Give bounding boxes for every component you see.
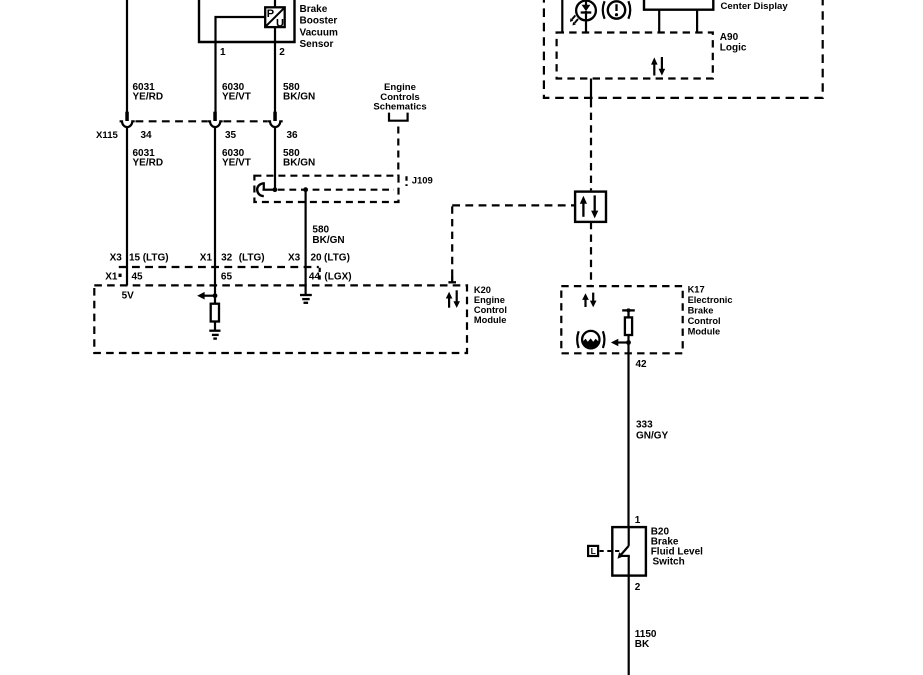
wire display box right — [696, 10, 698, 34]
J109 splice hook terminal — [257, 183, 265, 196]
svg-text:K17: K17 — [688, 284, 705, 294]
wire 6030 YE/VT to K20 — [214, 128, 216, 304]
svg-text:580: 580 — [312, 225, 329, 236]
svg-text:Logic: Logic — [720, 43, 747, 54]
svg-text:65: 65 — [221, 271, 233, 282]
svg-text:Booster: Booster — [300, 16, 338, 27]
T-bar terminal above K20 — [448, 277, 456, 283]
wire label 580 BK/GN upper — [283, 82, 315, 103]
serial data arrows in K17 — [582, 293, 596, 308]
connector X115 terminal pin 36 — [268, 112, 283, 127]
svg-text:BK: BK — [635, 639, 650, 650]
svg-text:GN/GY: GN/GY — [636, 431, 669, 442]
svg-text:YE/RD: YE/RD — [133, 92, 164, 103]
svg-text:Schematics: Schematics — [373, 102, 426, 113]
svg-text:X1: X1 — [200, 253, 213, 264]
svg-text:Vacuum: Vacuum — [300, 27, 338, 38]
arrow to brake fluid symbol — [611, 339, 629, 347]
wire resistor down — [627, 335, 629, 343]
dashed serial wire to data box — [452, 204, 575, 206]
label K20 Engine Control Module — [474, 285, 507, 325]
wire sensor pin 1 — [216, 17, 266, 112]
sensor box Brake Booster Vacuum Sensor — [199, 0, 295, 42]
wire from A90 solid — [590, 79, 592, 101]
dashed serial wire from K20 up — [451, 205, 453, 276]
svg-text:Control: Control — [474, 305, 507, 315]
resistor in K17 — [625, 317, 632, 335]
dashed serial wire gateway to K17 — [590, 222, 592, 286]
brake warning indicator symbol — [603, 1, 631, 19]
dashed serial wire A90 down — [590, 100, 592, 190]
J109 internal dashed bus — [263, 189, 276, 191]
serial data arrows in gateway box — [580, 195, 599, 218]
label Brake Booster Vacuum Sensor — [300, 4, 338, 50]
svg-text:BK/GN: BK/GN — [283, 92, 315, 103]
svg-text:X115: X115 — [96, 130, 119, 141]
label A90 Logic — [720, 32, 747, 54]
svg-text:Brake: Brake — [300, 4, 328, 15]
K20 connector left tick — [119, 274, 122, 277]
svg-text:BK/GN: BK/GN — [283, 157, 315, 168]
wire label 6030 YE/VT lower — [222, 148, 251, 169]
switch blade arrowhead — [618, 552, 624, 559]
wire 580 BK/GN from J109 to ground — [305, 190, 307, 295]
LED emission arrows — [570, 15, 578, 25]
junction dot pin36 wire — [273, 187, 278, 192]
svg-text:44: 44 — [309, 271, 321, 282]
svg-text:15: 15 — [129, 253, 141, 264]
switch B20 box — [612, 527, 646, 576]
label K17 Electronic Brake Control Module — [688, 284, 733, 336]
svg-text:5V: 5V — [122, 291, 135, 302]
wire display box left — [658, 10, 660, 34]
svg-text:34: 34 — [141, 130, 153, 141]
svg-text:2: 2 — [279, 47, 285, 58]
ground symbol in K20 — [209, 331, 220, 339]
svg-text:J109: J109 — [412, 176, 433, 187]
svg-text:Center Display: Center Display — [721, 1, 789, 12]
svg-text:X3: X3 — [110, 253, 123, 264]
wire inside display left — [561, 0, 563, 33]
svg-text:(LTG): (LTG) — [143, 253, 169, 264]
junction dot wire 6030 — [213, 293, 218, 298]
connector labels row X3/X1/X3 — [110, 253, 350, 264]
svg-text:35: 35 — [225, 130, 237, 141]
junction dot K17 — [626, 340, 631, 345]
connector labels row X1 45/65/44 — [105, 271, 351, 282]
dot on T-bar — [627, 308, 631, 312]
svg-text:YE/VT: YE/VT — [222, 92, 251, 103]
svg-text:Engine: Engine — [474, 295, 505, 305]
wire label 6031 YE/RD upper — [133, 82, 164, 103]
splice pack J109 dashed box — [254, 176, 398, 202]
arrow into K20 logic — [197, 292, 215, 300]
connector X115 terminal pin 34 — [120, 112, 135, 127]
K20 connector right tick — [319, 268, 321, 281]
svg-text:BK/GN: BK/GN — [312, 235, 344, 246]
label Engine Controls Schematics — [373, 82, 426, 112]
wire out of switch — [628, 556, 630, 576]
module K17 dashed box — [561, 286, 682, 353]
ground symbol 580 in K20 — [300, 295, 312, 303]
svg-text:2: 2 — [635, 582, 641, 593]
wire 6031 YE/RD from top — [126, 0, 128, 112]
svg-text:L: L — [591, 546, 596, 556]
module K20 dashed box — [94, 285, 467, 353]
svg-text:Module: Module — [688, 326, 721, 336]
wire label 1150 BK — [635, 629, 657, 650]
svg-text:1: 1 — [220, 47, 226, 58]
svg-text:A90: A90 — [720, 32, 739, 43]
svg-text:36: 36 — [287, 130, 299, 141]
serial data arrows in K20 — [446, 290, 460, 308]
wire 580 BK/GN to J109 — [274, 128, 276, 191]
K20 connector dashed line — [119, 266, 319, 268]
component P? Center Display outer dashed box — [544, 0, 823, 98]
svg-text:1: 1 — [635, 515, 641, 526]
dashed mechanical linkage — [600, 550, 624, 552]
connector X115 dashed harness line — [136, 120, 268, 122]
brake fluid warning symbol — [577, 331, 604, 350]
wire label 580 BK/GN middle — [312, 225, 344, 246]
svg-text:X3: X3 — [288, 253, 301, 264]
resistor in K20 — [211, 304, 219, 322]
svg-text:Control: Control — [688, 316, 721, 326]
svg-text:K20: K20 — [474, 285, 491, 295]
J109 label tick — [405, 176, 407, 186]
serial data gateway box — [575, 192, 606, 222]
svg-text:42: 42 — [636, 359, 648, 370]
label B20 Brake Fluid Level Switch — [651, 526, 703, 567]
display logic solid box — [644, 0, 713, 10]
wire sensor pin 2 upper — [274, 0, 276, 7]
svg-text:45: 45 — [132, 271, 144, 282]
svg-text:Electronic: Electronic — [688, 295, 733, 305]
svg-text:20: 20 — [311, 253, 323, 264]
wire into switch — [628, 527, 630, 546]
svg-text:X1: X1 — [105, 271, 118, 282]
switch contact bar — [619, 555, 630, 557]
pressure sensor symbol P/U box — [265, 7, 285, 29]
wire 333 GN/GY K17 to B20 — [627, 343, 629, 528]
fluid level sensor L box — [588, 546, 598, 556]
connector X115 terminal pin 35 — [208, 112, 223, 127]
svg-text:333: 333 — [636, 420, 653, 431]
module A90 Logic dashed box — [557, 33, 713, 79]
wire sensor pin 2 lower — [274, 27, 276, 112]
svg-text:Brake: Brake — [688, 305, 714, 315]
svg-text:P: P — [267, 8, 274, 20]
svg-text:(LTG): (LTG) — [239, 253, 265, 264]
svg-text:(LTG): (LTG) — [324, 253, 350, 264]
wire label 6031 YE/RD lower — [133, 148, 164, 169]
dashed lead to J109 — [397, 127, 399, 177]
wire 1150 BK — [628, 576, 630, 675]
wire label 580 BK/GN lower — [283, 148, 315, 169]
switch blade — [620, 546, 629, 556]
junction dot 580 out — [303, 187, 308, 192]
svg-text:U: U — [276, 18, 284, 30]
svg-text:32: 32 — [221, 253, 233, 264]
bracket under Engine Controls Schematics — [389, 113, 408, 121]
svg-text:Module: Module — [474, 315, 507, 325]
wire label 6030 YE/VT upper — [222, 82, 251, 103]
wire label 333 GN/GY — [636, 420, 669, 442]
wire resistor to ground — [214, 322, 216, 331]
svg-text:Sensor: Sensor — [300, 39, 334, 50]
svg-text:YE/RD: YE/RD — [133, 157, 164, 168]
T-bar terminal above K17 resistor — [622, 310, 635, 317]
svg-text:YE/VT: YE/VT — [222, 157, 251, 168]
wire 6031 YE/RD to K20 — [126, 128, 128, 285]
indicator LED lamp — [576, 0, 596, 33]
svg-text:Switch: Switch — [653, 557, 685, 568]
svg-text:(LGX): (LGX) — [324, 271, 351, 282]
serial data arrows in A90 — [651, 57, 665, 76]
